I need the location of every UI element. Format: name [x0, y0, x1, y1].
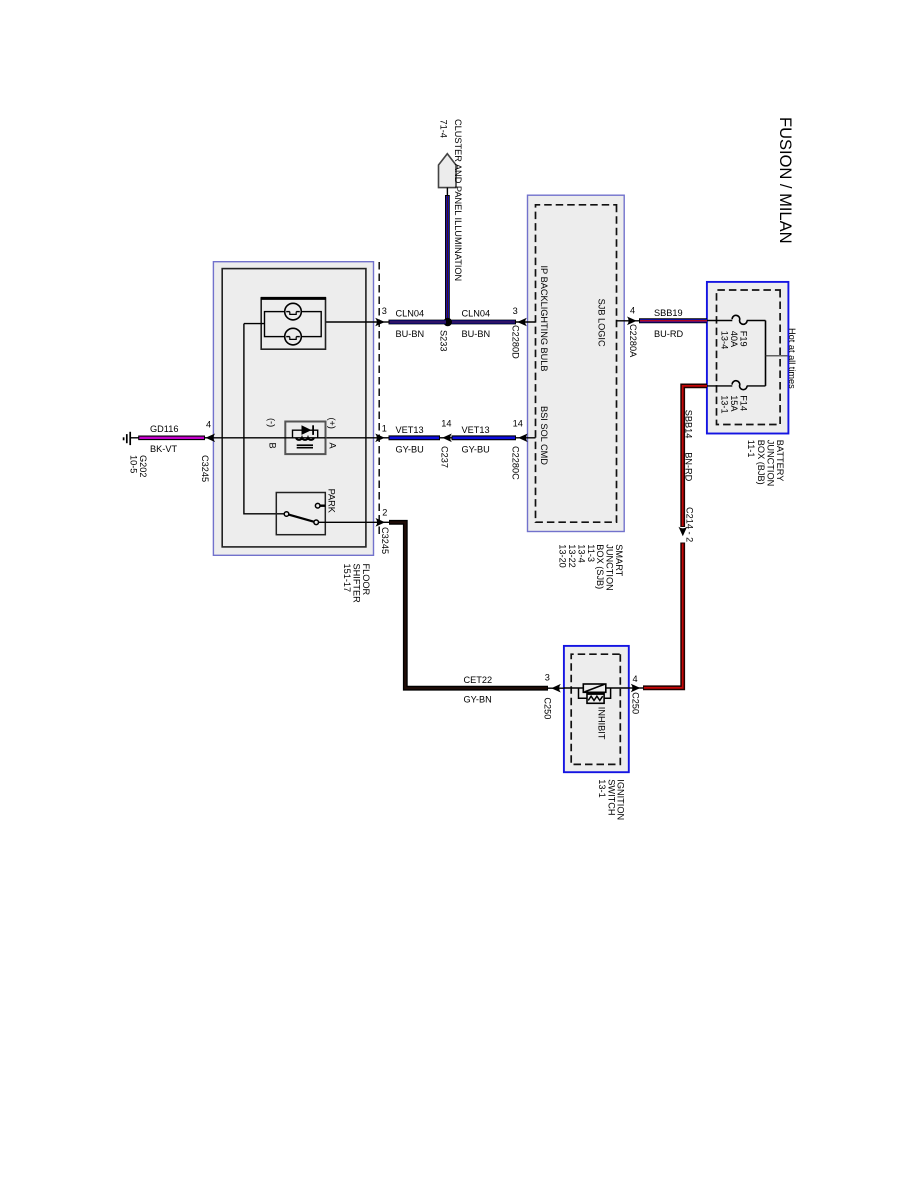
bulb assembly box: [261, 298, 326, 349]
fuse feed bus: [765, 321, 767, 386]
svg-text:2: 2: [382, 508, 387, 518]
in-line connector arrow C214 - 2: [679, 527, 688, 537]
svg-text:IGNITION: IGNITION: [616, 779, 626, 820]
svg-text:40A: 40A: [729, 331, 739, 348]
svg-text:13-4: 13-4: [720, 331, 730, 349]
svg-text:GY-BU: GY-BU: [396, 445, 424, 455]
park switch PARK contact with stub: [315, 503, 325, 508]
svg-text:C3245: C3245: [200, 455, 210, 482]
in-line connector C237: [440, 437, 452, 439]
wire park switch output to shifter pin 2: [319, 521, 377, 523]
inhibit actuator bracket: [579, 688, 611, 698]
svg-text:F19: F19: [739, 331, 749, 347]
svg-text:3: 3: [513, 306, 518, 316]
wire SBB14 fuse F14 to C214: [683, 386, 707, 527]
floor shifter label: [342, 564, 371, 604]
svg-text:13-22: 13-22: [567, 544, 577, 568]
svg-text:BOX (SJB): BOX (SJB): [595, 544, 605, 589]
fuse F14 label: [720, 395, 749, 413]
svg-text:14: 14: [513, 419, 523, 429]
splice S233: [443, 318, 452, 327]
svg-text:BU-BN: BU-BN: [462, 329, 491, 339]
inhibit actuator element (rect with diagonal): [583, 684, 606, 692]
svg-text:SBB14: SBB14: [683, 410, 693, 439]
svg-text:BU-BN: BU-BN: [396, 329, 425, 339]
wire GD116 shifter pin 4 to ground: [130, 437, 213, 439]
svg-text:G202: G202: [138, 455, 148, 477]
svg-text:SBB19: SBB19: [654, 308, 683, 318]
svg-text:C250: C250: [631, 692, 641, 714]
wire CLN04 upper segment SJB C2280D to S233: [450, 321, 536, 323]
svg-text:3: 3: [382, 306, 387, 316]
illumination bulb 2: [285, 328, 302, 345]
svg-text:BSI SOL CMD: BSI SOL CMD: [539, 406, 549, 465]
ignition switch box outline: [564, 646, 629, 772]
svg-text:FUSION / MILAN: FUSION / MILAN: [776, 117, 794, 244]
svg-text:11-3: 11-3: [586, 544, 596, 562]
svg-text:PARK: PARK: [327, 489, 337, 514]
svg-text:C250: C250: [543, 697, 553, 719]
bulb parallel loop wiring: [265, 312, 322, 337]
connector arrow C2280D: [517, 318, 527, 327]
connector arrow ignition pin 3 C250: [551, 684, 561, 693]
svg-text:VET13: VET13: [462, 425, 490, 435]
ground label G202 10-5: [129, 455, 149, 477]
svg-text:C237: C237: [440, 446, 450, 468]
svg-text:SHIFTER: SHIFTER: [352, 564, 362, 604]
floor shifter connector C3245 dashed boundary line: [378, 262, 380, 536]
svg-text:(-): (-): [267, 418, 277, 427]
svg-text:INHIBIT: INHIBIT: [597, 707, 607, 740]
wire S233 branch to cluster connector (CLN04): [446, 188, 448, 322]
svg-text:(+): (+): [327, 418, 337, 429]
wire VET13 upper segment SJB C2280C to C237: [452, 437, 536, 439]
svg-text:4: 4: [630, 306, 635, 316]
battery junction box label: [746, 440, 785, 486]
svg-text:GD116: GD116: [150, 424, 178, 434]
svg-text:13-1: 13-1: [597, 779, 607, 797]
svg-text:10-5: 10-5: [129, 455, 139, 473]
svg-text:BU-RD: BU-RD: [654, 329, 683, 339]
wire CLN04 inside shifter to bulbs: [321, 321, 376, 323]
BJB battery junction box outline: [707, 282, 789, 434]
svg-text:14: 14: [441, 419, 451, 429]
svg-text:SJB LOGIC: SJB LOGIC: [597, 299, 607, 347]
svg-text:C2280C: C2280C: [511, 446, 521, 480]
wire VET13 inside shifter to solenoid: [326, 437, 377, 439]
shift lock solenoid box: [285, 422, 325, 455]
SJB smart junction box outline: [528, 195, 625, 531]
wire CET22 shifter pin 2 to ignition switch: [377, 522, 564, 688]
smart junction box label: [558, 544, 624, 590]
solenoid coil: [296, 438, 314, 440]
svg-text:4: 4: [206, 420, 211, 430]
svg-text:Hot at all times: Hot at all times: [787, 328, 797, 389]
svg-text:B: B: [268, 443, 278, 449]
svg-text:BK-VT: BK-VT: [150, 444, 177, 454]
solenoid core bars: [297, 445, 313, 448]
wire SBB14 C214 to ignition switch pin 4: [629, 543, 683, 689]
wire SBB19 BJB fuse F19 to SJB C2280A: [617, 318, 708, 323]
connector arrow shifter pin 2: [376, 518, 386, 527]
svg-text:C214 - 2: C214 - 2: [684, 507, 694, 542]
svg-text:GY-BU: GY-BU: [462, 445, 490, 455]
park switch box: [276, 493, 325, 535]
hot at all times stub: [766, 355, 788, 357]
svg-text:71-4: 71-4: [439, 120, 449, 138]
internal ground bus wire: [244, 324, 286, 514]
solenoid wire through box: [213, 437, 325, 439]
svg-text:11-1: 11-1: [746, 440, 756, 458]
ignition switch label: [597, 779, 626, 820]
floor shifter box outline: [213, 262, 373, 556]
svg-text:A: A: [328, 443, 338, 450]
connector arrow shifter pin 3: [375, 318, 385, 327]
svg-text:BATTERY: BATTERY: [775, 440, 785, 482]
svg-text:C2280A: C2280A: [628, 324, 638, 358]
park switch pole contact: [284, 512, 289, 517]
connector arrow C2280A: [627, 317, 637, 326]
svg-text:S233: S233: [439, 330, 449, 351]
svg-text:GY-BN: GY-BN: [464, 695, 492, 705]
svg-text:151-17: 151-17: [342, 564, 352, 593]
svg-text:C3245: C3245: [380, 527, 390, 554]
svg-text:FLOOR: FLOOR: [361, 564, 371, 596]
connector arrow shifter pin 1: [375, 434, 385, 443]
svg-text:13-1: 13-1: [720, 395, 730, 413]
ground symbol G202: [124, 432, 131, 445]
svg-text:13-4: 13-4: [576, 544, 586, 562]
svg-text:F14: F14: [739, 395, 749, 411]
connector arrow C237: [442, 434, 452, 443]
svg-text:C2280D: C2280D: [511, 325, 521, 359]
connector arrow shifter pin 4 C3245: [206, 434, 216, 443]
wire bulb loop to internal ground bus: [244, 323, 265, 325]
svg-text:4: 4: [633, 674, 638, 684]
svg-text:1: 1: [382, 423, 387, 433]
park switch output contact: [314, 520, 319, 525]
wire CLN04 lower segment S233 to shifter pin 3: [377, 320, 447, 325]
connector arrow C2280C: [518, 434, 528, 443]
ignition switch internal wire: [564, 687, 629, 689]
svg-text:SMART: SMART: [614, 544, 624, 576]
svg-text:3: 3: [545, 672, 550, 682]
svg-text:CLN04: CLN04: [396, 309, 425, 319]
svg-text:CLUSTER AND PANEL ILLUMINATION: CLUSTER AND PANEL ILLUMINATION: [453, 119, 463, 281]
park switch blade: [289, 515, 315, 522]
wire VET13 lower segment C237 to shifter pin 1: [377, 435, 441, 440]
off-page connector CLUSTER AND PANEL ILLUMINATION 71-4: [439, 154, 457, 188]
fuse F19: [707, 315, 766, 324]
svg-text:BOX (BJB): BOX (BJB): [756, 440, 766, 485]
svg-text:JUNCTION: JUNCTION: [766, 440, 776, 486]
flyback diode branch: [293, 430, 318, 438]
svg-text:VET13: VET13: [396, 425, 424, 435]
svg-text:15A: 15A: [729, 395, 739, 412]
svg-text:13-20: 13-20: [558, 544, 568, 568]
diode (cathode up): [302, 425, 314, 435]
inhibit resistive element (rect with zigzag): [587, 692, 604, 703]
svg-text:CET22: CET22: [464, 675, 493, 685]
connector arrow ignition pin 4 C250: [631, 684, 641, 693]
fuse F19 label: [720, 331, 749, 349]
svg-text:CLN04: CLN04: [462, 309, 491, 319]
svg-text:BN-RD: BN-RD: [683, 452, 693, 481]
svg-text:SWITCH: SWITCH: [606, 779, 616, 815]
svg-text:JUNCTION: JUNCTION: [605, 544, 615, 590]
fuse F14: [707, 381, 766, 390]
illumination bulb 1: [285, 303, 302, 320]
svg-text:IP BACKLIGHTING BULB: IP BACKLIGHTING BULB: [539, 266, 549, 372]
